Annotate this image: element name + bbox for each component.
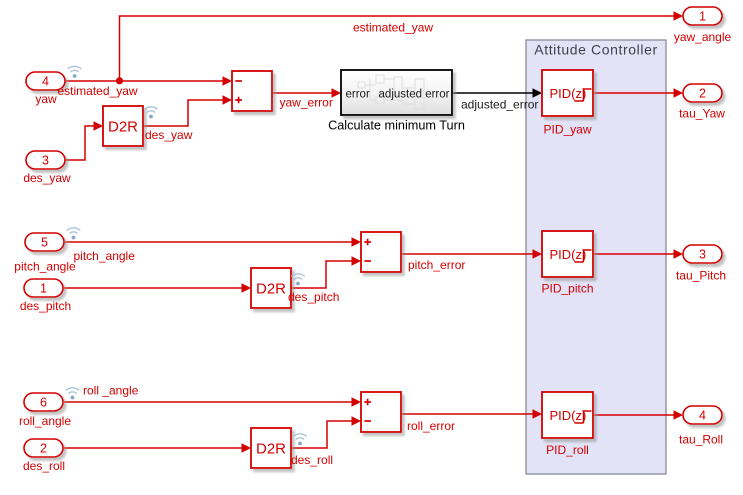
- svg-text:3: 3: [699, 248, 706, 262]
- outport 1 yaw_angle: [683, 7, 722, 25]
- svg-text:des_roll: des_roll: [23, 459, 65, 473]
- outport 3 tau_Pitch: [683, 245, 722, 263]
- svg-text:5: 5: [41, 236, 48, 250]
- svg-text:pitch_angle: pitch_angle: [14, 260, 76, 274]
- svg-text:pitch_error: pitch_error: [408, 258, 465, 272]
- sum block roll: [361, 392, 401, 432]
- svg-text:PID(z): PID(z): [550, 247, 587, 262]
- svg-text:2: 2: [699, 87, 706, 101]
- wire port6 to sum roll plus input: [64, 401, 353, 403]
- wire estimated_yaw bypass (junction to outport 1): [120, 16, 675, 81]
- wireless icon des_pitch: [292, 274, 304, 286]
- svg-text:yaw_angle: yaw_angle: [674, 30, 732, 44]
- svg-text:des_yaw: des_yaw: [23, 171, 71, 185]
- svg-text:tau_Roll: tau_Roll: [679, 433, 723, 447]
- sum pitch plus sign: [364, 239, 371, 246]
- block PID_pitch: [542, 231, 593, 277]
- sum roll minus sign: [364, 420, 371, 422]
- svg-text:error: error: [346, 89, 370, 101]
- svg-text:6: 6: [40, 396, 47, 410]
- junction node estimated_yaw: [116, 77, 123, 84]
- svg-text:4: 4: [42, 75, 49, 89]
- arrowhead into outport 1: [674, 11, 684, 21]
- outport 2 tau_Yaw: [683, 84, 722, 102]
- wire port3 to D2R yaw: [65, 126, 95, 160]
- wire pitch_error (sum pitch to PID_pitch): [401, 253, 534, 255]
- svg-text:D2R: D2R: [256, 281, 286, 298]
- wire PID_roll to outport 4: [593, 414, 675, 416]
- wire PID_yaw to outport 2: [593, 92, 675, 94]
- svg-text:yaw: yaw: [35, 92, 57, 106]
- svg-text:des_pitch: des_pitch: [20, 299, 71, 313]
- block D2R pitch: [251, 268, 291, 308]
- preview sketch inside Calculate minimum Turn: [358, 75, 424, 109]
- inport 1 des_pitch: [24, 279, 63, 297]
- sum pitch minus sign: [364, 260, 371, 262]
- svg-text:roll_angle: roll_angle: [19, 414, 71, 428]
- svg-text:roll _angle: roll _angle: [83, 384, 139, 398]
- wire port5 to sum pitch plus input: [65, 241, 353, 243]
- inport 2 des_roll: [24, 439, 63, 457]
- inport 6 roll_angle: [24, 393, 63, 411]
- svg-text:1: 1: [40, 282, 47, 296]
- wire D2R pitch to sum pitch minus input: [291, 261, 353, 288]
- wire port4 to sum yaw minus input: [65, 80, 224, 82]
- block PID_roll: [542, 392, 593, 438]
- svg-text:adjusted_error: adjusted_error: [461, 98, 538, 112]
- sum roll plus sign: [364, 399, 371, 406]
- svg-text:yaw_error: yaw_error: [280, 96, 333, 110]
- wireless icon estimated_yaw: [68, 66, 80, 78]
- svg-text:roll_error: roll_error: [407, 419, 455, 433]
- wire PID_pitch to outport 3: [593, 253, 675, 255]
- wireless icon des_yaw: [145, 107, 157, 119]
- svg-text:tau_Yaw: tau_Yaw: [679, 107, 725, 121]
- block D2R roll: [251, 428, 291, 468]
- svg-text:PID(z): PID(z): [550, 86, 587, 101]
- sum block yaw: [232, 71, 272, 111]
- svg-text:4: 4: [699, 409, 706, 423]
- inport 5 pitch_angle: [25, 233, 64, 251]
- svg-text:estimated_yaw: estimated_yaw: [353, 21, 433, 35]
- svg-text:estimated_yaw: estimated_yaw: [58, 84, 138, 98]
- svg-text:PID_roll: PID_roll: [546, 443, 589, 457]
- wireless icon pitch_angle: [67, 228, 79, 240]
- block D2R yaw: [103, 106, 143, 146]
- sum block pitch: [361, 232, 401, 272]
- svg-text:1: 1: [699, 10, 706, 24]
- svg-text:PID(z): PID(z): [550, 408, 587, 423]
- svg-text:tau_Pitch: tau_Pitch: [676, 269, 726, 283]
- wire roll_error (sum roll to PID_roll): [401, 413, 534, 415]
- wireless icon roll_angle: [66, 388, 78, 400]
- svg-text:Attitude Controller: Attitude Controller: [534, 42, 657, 58]
- wire yaw_error (sum yaw to Calculate minimum Turn): [272, 92, 333, 94]
- inport 4 yaw: [26, 72, 65, 90]
- svg-text:D2R: D2R: [108, 119, 138, 136]
- sum yaw plus sign: [235, 97, 242, 104]
- svg-text:PID_pitch: PID_pitch: [541, 282, 593, 296]
- wireless icon des_roll: [294, 434, 306, 446]
- svg-text:D2R: D2R: [256, 441, 286, 458]
- outport 4 tau_Roll: [683, 406, 722, 424]
- svg-text:Calculate minimum Turn: Calculate minimum Turn: [328, 119, 465, 133]
- block Calculate minimum Turn: [341, 70, 452, 115]
- wire port2 to D2R roll: [64, 447, 243, 449]
- area Attitude Controller: [526, 40, 666, 474]
- wire D2R yaw to sum yaw plus input: [143, 100, 224, 126]
- block PID_yaw: [542, 70, 593, 116]
- svg-text:pitch_angle: pitch_angle: [74, 249, 136, 263]
- svg-text:adjusted error: adjusted error: [379, 89, 450, 101]
- svg-text:PID_yaw: PID_yaw: [543, 123, 591, 137]
- wire port1 to D2R pitch: [64, 287, 243, 289]
- sum yaw minus sign: [235, 80, 242, 82]
- svg-text:des_pitch: des_pitch: [288, 290, 339, 304]
- svg-text:des_yaw: des_yaw: [145, 128, 193, 142]
- svg-text:des_roll: des_roll: [291, 453, 333, 467]
- svg-text:3: 3: [42, 154, 49, 168]
- inport 3 des_yaw: [26, 151, 65, 169]
- wire adjusted_error (black, Calculate minimum Turn to PID_yaw): [452, 92, 534, 94]
- svg-text:2: 2: [40, 442, 47, 456]
- wire D2R roll to sum roll minus input: [291, 421, 353, 448]
